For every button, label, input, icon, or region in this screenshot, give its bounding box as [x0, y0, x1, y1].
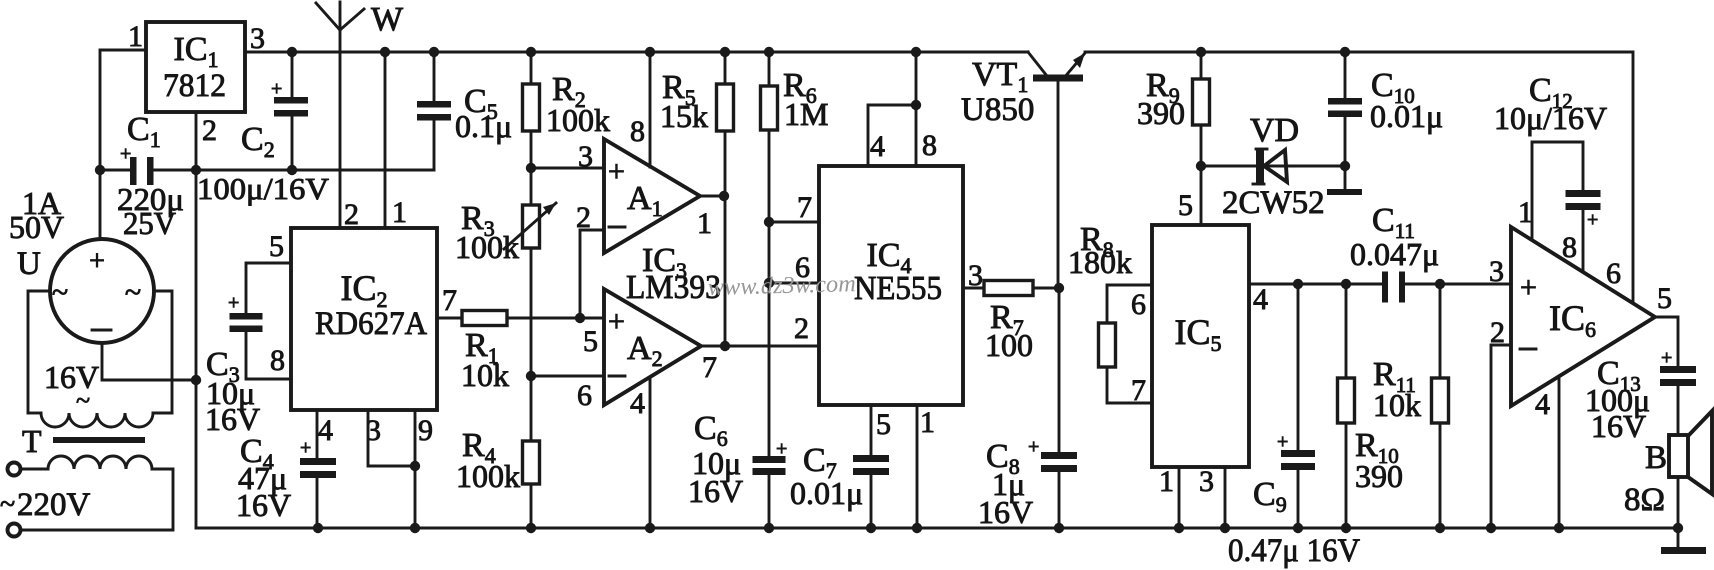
junction node R3-R4/A2 pin6 — [526, 371, 536, 381]
transistor VT1 U850 — [1028, 52, 1047, 76]
ground symbol below speaker — [1677, 528, 1680, 548]
transformer T primary winding — [21, 468, 48, 471]
wire: A2 output to IC4 pin2 — [701, 345, 819, 348]
svg-text:16V: 16V — [688, 473, 743, 509]
wire: IC4 pin1 to ground rail — [916, 405, 919, 528]
resistor R1 10k — [462, 311, 507, 326]
svg-text:+: + — [1277, 431, 1288, 453]
svg-text:1: 1 — [1159, 465, 1174, 498]
wire: ground bottom rail — [196, 527, 1678, 530]
wire: IC4 pins4+8 to top rail — [868, 105, 916, 166]
svg-text:5: 5 — [876, 408, 891, 441]
svg-text:www.dz3w.com: www.dz3w.com — [707, 271, 856, 301]
junction node VD/C10 — [1340, 161, 1350, 171]
resistor R10 390 — [1345, 284, 1348, 378]
resistor R6 1M — [761, 86, 778, 130]
wire: IC2 pin4 down to C4 — [316, 410, 319, 458]
wire: A1 pin3 input stub — [531, 167, 604, 170]
junction node R7/VT1 base/C8 — [1054, 283, 1064, 293]
capacitor C8 1u/16V — [1058, 288, 1061, 452]
wire: R6 from top rail — [768, 52, 771, 86]
junction node R10 top — [1341, 279, 1351, 289]
wire: R5 from top rail — [724, 52, 727, 84]
resistor R7 100 — [984, 281, 1033, 296]
wire: IC5 pin4 output line to C11 — [1249, 283, 1382, 286]
svg-text:10k: 10k — [461, 357, 509, 393]
wire: IC4 pin3 to R7 — [963, 287, 984, 290]
junction dots on top rail — [287, 47, 297, 57]
svg-text:2: 2 — [344, 198, 359, 231]
IC U5: IC5 box — [1152, 225, 1249, 467]
svg-text:3: 3 — [1199, 465, 1214, 498]
svg-text:3: 3 — [250, 22, 265, 55]
capacitor C6 10u/16V — [753, 456, 786, 463]
svg-text:+: + — [776, 438, 787, 460]
zener diode VD 2CW52 — [1201, 165, 1345, 168]
wire: R6 down through pins 7,6 to C6 — [768, 130, 771, 456]
resistor R2 100k — [523, 84, 540, 131]
wire: divider chain from top rail — [530, 52, 533, 84]
svg-text:+: + — [228, 292, 239, 314]
svg-text:50V: 50V — [9, 209, 64, 245]
svg-text:4: 4 — [630, 387, 645, 420]
IC U2: IC2 RD627A box — [291, 228, 437, 410]
wire: IC4 pin5 down to C7 — [870, 405, 873, 455]
svg-text:2: 2 — [794, 312, 809, 345]
svg-text:6: 6 — [1131, 288, 1146, 321]
svg-text:220V: 220V — [17, 487, 91, 523]
svg-text:6: 6 — [577, 379, 592, 412]
AC input terminal bottom — [8, 524, 21, 537]
wire: R1 to A2 pin5 — [507, 317, 604, 320]
wire: IC5 pin3 to ground — [1224, 467, 1227, 528]
junction node pin2/C1 — [191, 165, 201, 175]
junction node R2/R3/A1 pin3 — [526, 163, 536, 173]
svg-text:7: 7 — [797, 191, 812, 224]
svg-text:T: T — [22, 423, 42, 459]
svg-text:8: 8 — [630, 115, 645, 148]
junction node A1 out/R5 — [719, 191, 729, 201]
junction node at bridge+/C1 — [95, 165, 105, 175]
svg-text:16V: 16V — [1591, 408, 1646, 444]
wire: IC6 pin5 output — [1655, 317, 1678, 366]
resistor R3 100k (adjustable) — [523, 205, 540, 248]
wire: IC4 pin6 stub — [769, 282, 819, 285]
resistor R11 10k — [1439, 284, 1442, 378]
svg-text:VD: VD — [1250, 112, 1299, 149]
svg-text:16V: 16V — [978, 494, 1033, 530]
svg-text:+: + — [1520, 271, 1537, 304]
svg-text:3: 3 — [578, 140, 593, 173]
svg-text:U: U — [17, 246, 41, 282]
svg-text:+: + — [271, 78, 282, 100]
junction node A2 out/R5 line — [720, 341, 730, 351]
svg-text:0.47μ 16V: 0.47μ 16V — [1228, 533, 1360, 569]
svg-text:RD627A: RD627A — [315, 306, 427, 342]
svg-text:W: W — [371, 1, 404, 38]
wire: IC2 pin7 to R1 — [437, 317, 462, 320]
junction node pin4/C9 — [1293, 279, 1303, 289]
junction node bridge-negative/ground — [191, 375, 201, 385]
svg-text:15k: 15k — [660, 98, 708, 134]
svg-text:16V: 16V — [44, 359, 99, 395]
svg-text:10k: 10k — [1373, 387, 1421, 423]
wire: IC1 pin1 to bridge + — [100, 50, 146, 237]
svg-text:5: 5 — [1657, 282, 1672, 315]
svg-text:NE555: NE555 — [854, 270, 942, 307]
svg-text:+: + — [89, 246, 105, 277]
svg-text:4: 4 — [1535, 388, 1550, 421]
svg-text:5: 5 — [1178, 189, 1193, 222]
wire: IC6 pin4 to ground — [1558, 378, 1561, 528]
wire: IC5 pin1 to ground — [1178, 467, 1181, 528]
wire: A2 pin6 input stub — [531, 375, 604, 378]
svg-text:+: + — [1028, 436, 1039, 458]
svg-text:390: 390 — [1355, 458, 1403, 494]
bridge rectifier U (1A 50V) — [50, 239, 154, 343]
wire: IC2 pin5 stub — [246, 263, 291, 313]
wire: R9 from top rail — [1200, 52, 1203, 79]
svg-text:7812: 7812 — [163, 68, 226, 104]
svg-text:180k: 180k — [1068, 244, 1132, 280]
capacitor C11 0.047u (series) — [1382, 272, 1388, 303]
svg-text:100k: 100k — [455, 229, 519, 265]
svg-text:25V: 25V — [123, 205, 176, 241]
capacitor C2 100u/16V — [291, 52, 294, 97]
svg-text:B: B — [1645, 440, 1667, 476]
junction node R11 top — [1435, 279, 1445, 289]
svg-text:16V: 16V — [205, 401, 260, 437]
svg-text:1M: 1M — [784, 96, 828, 132]
wire: A2 pin4 to ground rail — [649, 379, 652, 528]
svg-text:~: ~ — [52, 276, 68, 309]
capacitor C3 10u/16V — [230, 313, 263, 320]
transformer T secondary winding — [28, 412, 41, 415]
svg-text:9: 9 — [418, 414, 433, 447]
svg-text:2CW52: 2CW52 — [1222, 185, 1325, 221]
svg-text:3: 3 — [1489, 255, 1504, 288]
wire: +12V top supply rail (IC1 pin3 to VT1 collector) — [245, 51, 1028, 54]
wire: IC6 pin1 up and over to C12 — [1532, 142, 1583, 240]
svg-text:8: 8 — [1562, 231, 1577, 264]
wire: IC4 pin7 stub — [769, 221, 819, 224]
junction node pin7/R6 — [764, 217, 774, 227]
svg-text:~: ~ — [0, 489, 15, 520]
capacitor C12 10u/16V — [1566, 190, 1601, 197]
capacitor C10 0.01u — [1344, 52, 1347, 98]
svg-text:7: 7 — [442, 284, 457, 317]
op-amp A1 (1/2 LM393) — [604, 139, 700, 253]
capacitor C7 0.01u — [853, 455, 889, 462]
wire: IC6 pin2 to ground — [1491, 345, 1511, 528]
speaker B 8ohm — [1669, 435, 1688, 477]
capacitor C5 0.1u — [433, 52, 436, 101]
wire: VT1 base down to R7 node — [1057, 82, 1060, 288]
wire: A1 pin8 to top rail — [649, 52, 652, 167]
svg-text:4: 4 — [1253, 283, 1268, 316]
junction node R9/VD/IC5 pin5 — [1196, 161, 1206, 171]
svg-text:7: 7 — [702, 351, 717, 384]
capacitor C13 100u/16V — [1660, 366, 1696, 373]
svg-text:0.047μ: 0.047μ — [1350, 236, 1439, 272]
wire: A1 output to R5 line — [700, 195, 725, 198]
svg-text:100k: 100k — [456, 458, 520, 494]
svg-text:390: 390 — [1137, 95, 1185, 131]
svg-text:~: ~ — [76, 386, 90, 415]
svg-text:2: 2 — [202, 114, 217, 147]
junction node R1/A1 pin2/A2 pin5 — [575, 313, 585, 323]
svg-text:1: 1 — [392, 196, 407, 229]
capacitor C9 0.47u/16V — [1297, 284, 1300, 450]
wire: ground link line under IC1 (C1/C2/C5 commons) — [100, 169, 130, 172]
svg-text:+: + — [608, 305, 625, 338]
svg-text:+: + — [300, 437, 311, 459]
svg-text:U850: U850 — [961, 92, 1034, 128]
svg-text:0.01μ: 0.01μ — [1370, 98, 1443, 134]
svg-text:100k: 100k — [546, 102, 610, 138]
antenna W — [339, 2, 342, 228]
svg-text:+: + — [1661, 347, 1672, 369]
junction node C2 bottom — [287, 165, 297, 175]
svg-text:1: 1 — [128, 20, 143, 53]
junction dots on ground rail — [313, 523, 323, 533]
AC input terminal top — [8, 463, 21, 476]
svg-text:0.1μ: 0.1μ — [455, 108, 512, 144]
junction node pin3/pin9 — [410, 461, 420, 471]
svg-text:0.01μ: 0.01μ — [790, 475, 863, 511]
wire: C11 to IC6 pin3 — [1405, 283, 1511, 286]
wire: R9 to IC5 pin5 — [1200, 125, 1203, 225]
resistor R9 390 — [1193, 79, 1210, 125]
op-amp IC6 power amplifier — [1511, 227, 1655, 406]
svg-text:4: 4 — [318, 414, 333, 447]
resistor R4 100k — [523, 441, 540, 484]
wire: IC2 pin1 to top rail — [384, 52, 387, 228]
svg-text:1: 1 — [697, 207, 712, 240]
svg-text:~: ~ — [125, 276, 141, 309]
svg-text:4: 4 — [870, 130, 885, 163]
capacitor C4 47u/16V — [300, 458, 336, 465]
resistor R5 15k — [717, 84, 734, 131]
IC U1: IC1 7812 voltage regulator box — [146, 22, 245, 112]
svg-text:16V: 16V — [236, 487, 291, 523]
wire: top supply rail (VT1 emitter to right corner, down to IC6 pin 6) — [1085, 52, 1633, 302]
wire: bridge negative to ground line — [102, 343, 196, 380]
wire: R5 down through A1 out to A2 out — [724, 131, 727, 346]
wire: IC2 pin3 to pin9 link — [368, 410, 415, 466]
junction node pin4/pin8 — [911, 100, 921, 110]
svg-text:6: 6 — [1606, 257, 1621, 290]
junction node pin6/R6 line — [764, 278, 774, 288]
svg-text:5: 5 — [583, 325, 598, 358]
wire: IC1 pin2 ground line down to bottom rail — [195, 112, 198, 528]
resistor R8 180k between IC5 pins 6,7 — [1107, 285, 1152, 323]
svg-text:8: 8 — [922, 129, 937, 162]
wire: bridge right AC stub — [154, 291, 172, 413]
svg-text:8: 8 — [270, 344, 285, 377]
wire: bridge left AC stub — [28, 291, 50, 413]
svg-text:1: 1 — [920, 406, 935, 439]
wire: R3 to R4 — [530, 248, 533, 441]
wire: A1 pin2 stub down to R1 node — [580, 230, 604, 318]
IC U4: IC4 NE555 box — [819, 166, 963, 405]
svg-text:+: + — [1587, 209, 1598, 231]
svg-text:10μ/16V: 10μ/16V — [1494, 100, 1607, 136]
svg-text:100: 100 — [985, 327, 1033, 363]
op-amp A2 (2/2 LM393) — [604, 289, 701, 405]
transformer T core — [53, 437, 145, 443]
svg-text:8Ω: 8Ω — [1624, 482, 1665, 518]
wire: R7 to VT1 base node — [1033, 287, 1059, 290]
wire: IC2 pin9 to ground rail — [414, 410, 417, 528]
wire: IC2 pin8 stub — [246, 331, 291, 379]
ground bar under C10 — [1327, 189, 1362, 195]
svg-text:100μ/16V: 100μ/16V — [197, 171, 330, 206]
svg-text:+: + — [608, 155, 625, 188]
svg-text:5: 5 — [269, 230, 284, 263]
capacitor C1 220u/25V (horizontal polarized) — [130, 157, 137, 185]
